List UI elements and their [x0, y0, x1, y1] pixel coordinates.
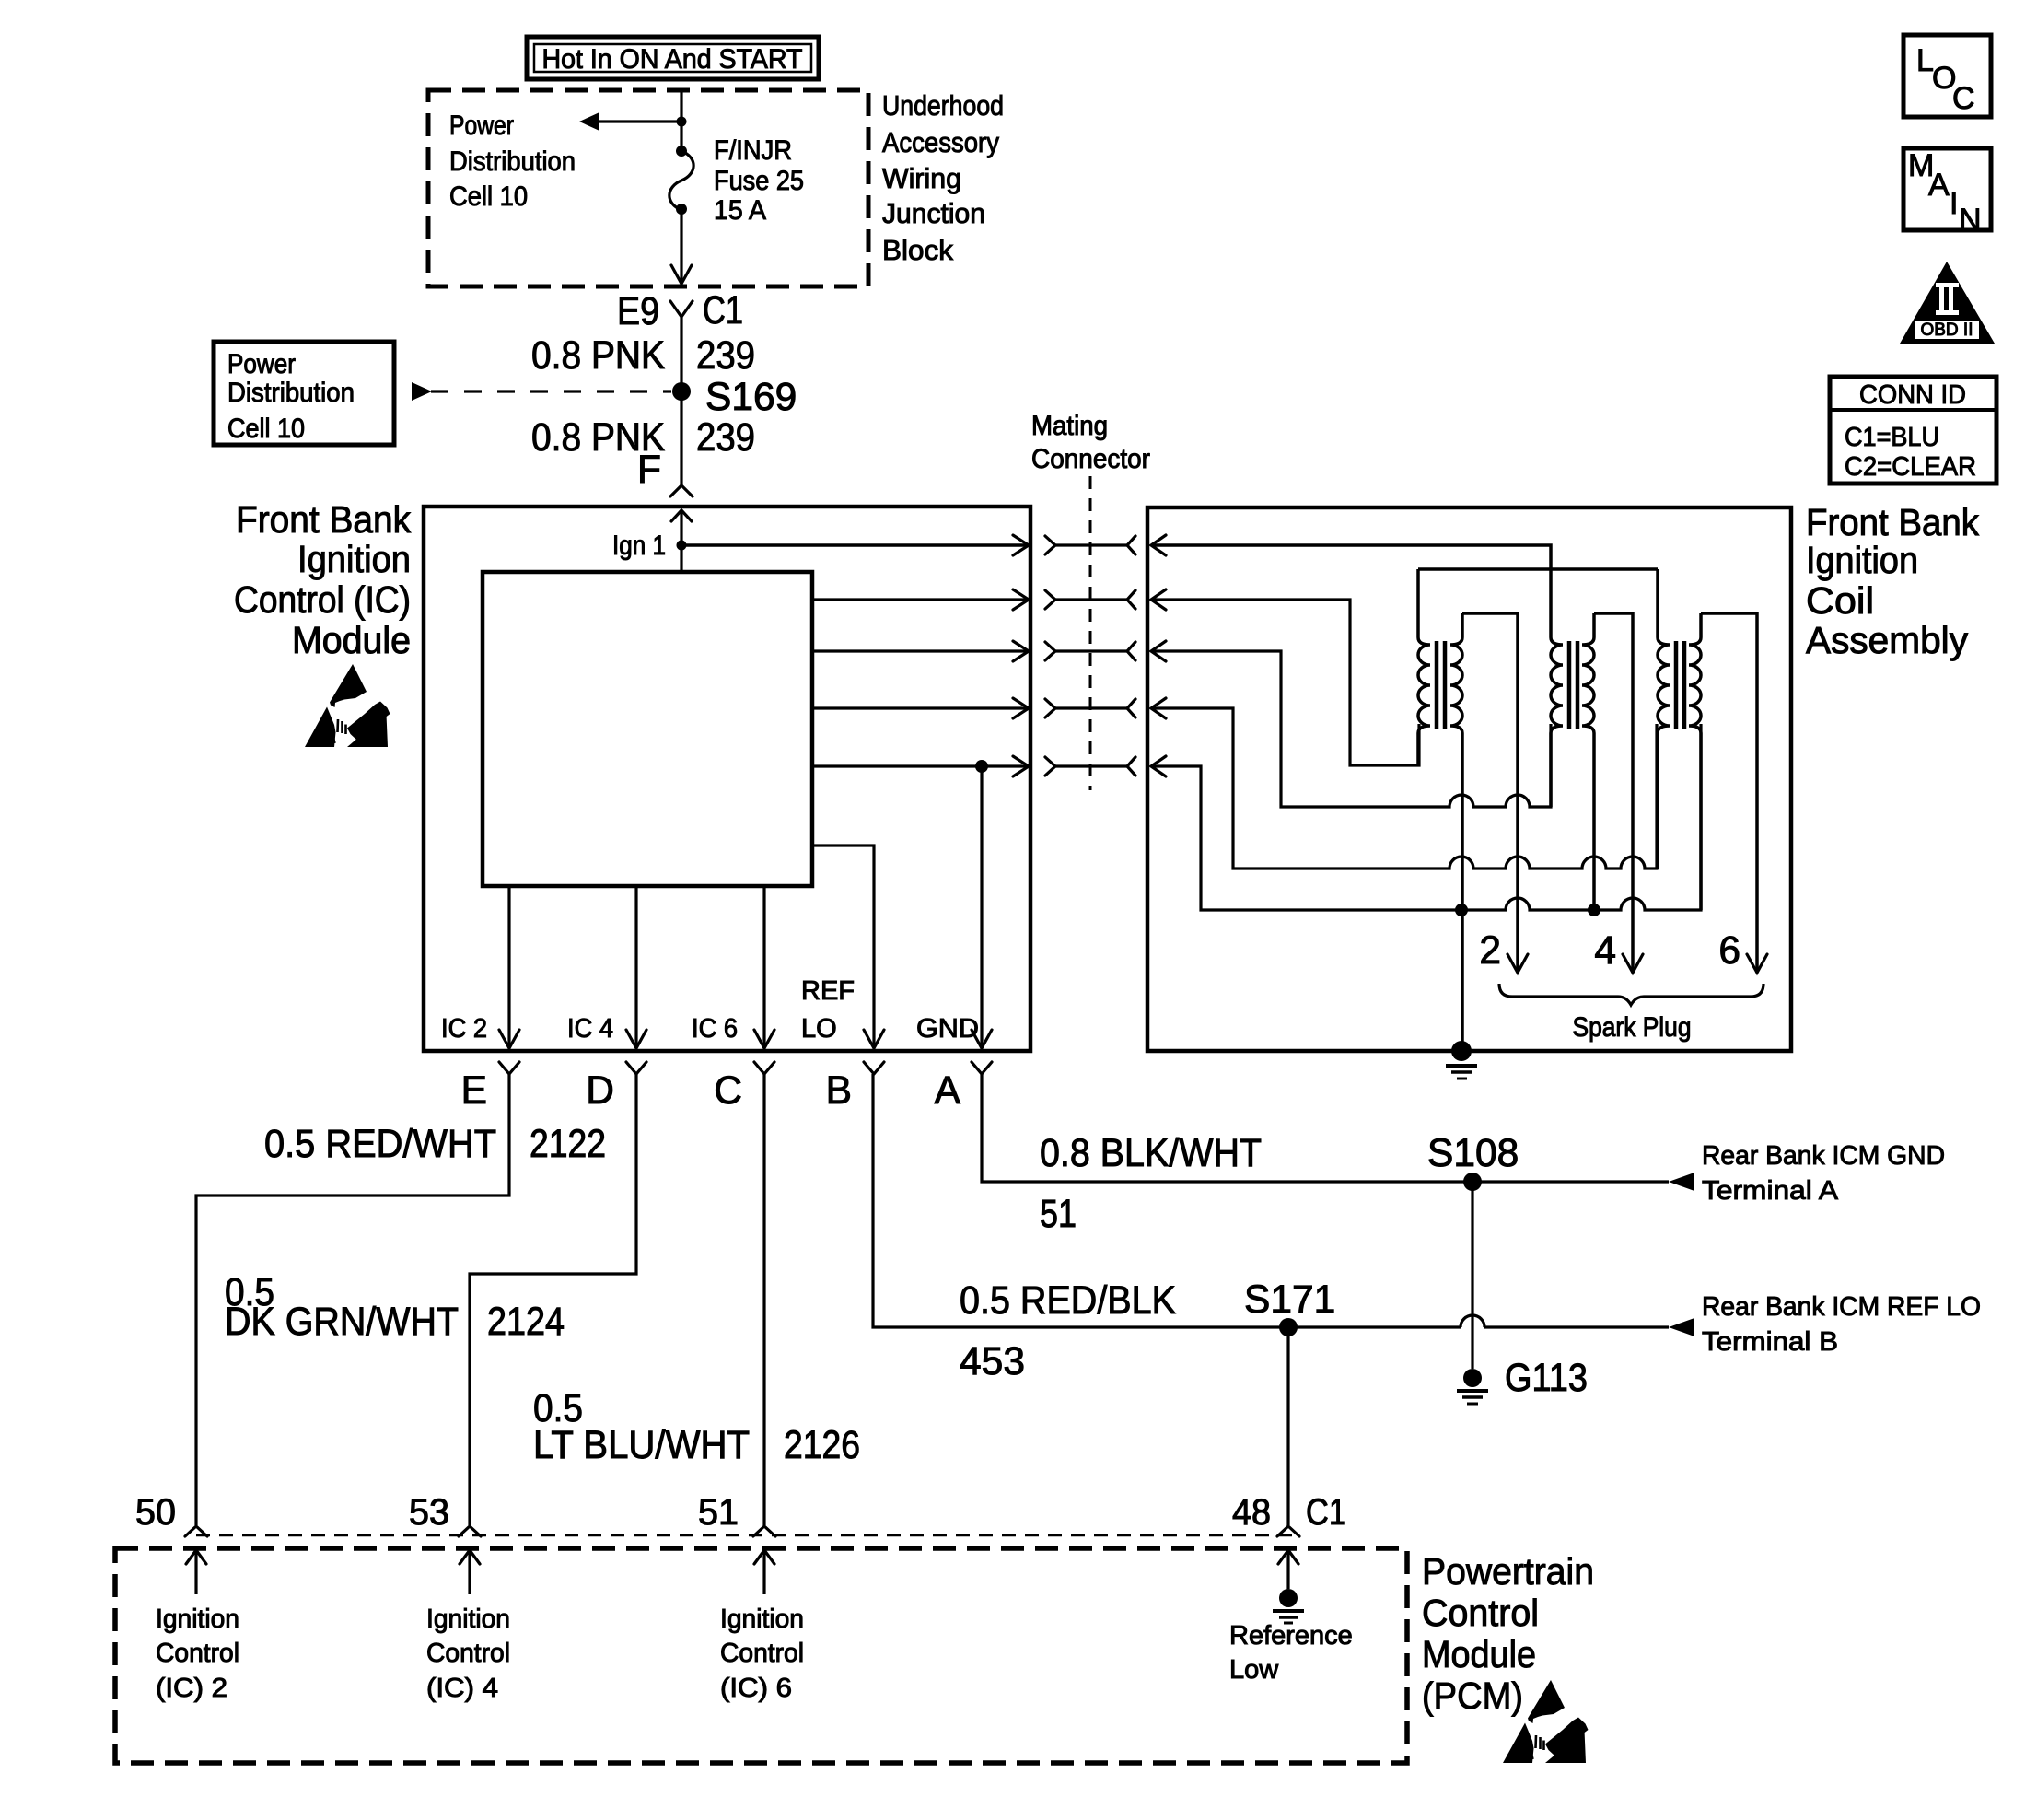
- svg-text:IC 4: IC 4: [567, 1014, 613, 1044]
- svg-text:48: 48: [1232, 1492, 1271, 1533]
- svg-text:51: 51: [1040, 1193, 1077, 1236]
- svg-text:Ignition: Ignition: [156, 1604, 239, 1634]
- svg-text:DK GRN/WHT: DK GRN/WHT: [225, 1301, 459, 1344]
- svg-text:453: 453: [960, 1340, 1025, 1383]
- svg-text:Junction: Junction: [882, 197, 985, 229]
- svg-text:G113: G113: [1505, 1357, 1588, 1400]
- svg-text:239: 239: [696, 334, 755, 378]
- svg-text:S171: S171: [1244, 1278, 1335, 1322]
- svg-text:0.5 RED/BLK: 0.5 RED/BLK: [960, 1279, 1176, 1323]
- svg-text:Hot In ON And START: Hot In ON And START: [542, 44, 803, 75]
- svg-text:(IC) 2: (IC) 2: [156, 1674, 227, 1703]
- svg-text:Powertrain: Powertrain: [1422, 1550, 1594, 1592]
- svg-text:CONN ID: CONN ID: [1859, 380, 1966, 410]
- svg-text:Distribution: Distribution: [449, 146, 576, 177]
- svg-text:IC 2: IC 2: [441, 1014, 487, 1044]
- svg-text:LT BLU/WHT: LT BLU/WHT: [533, 1424, 750, 1467]
- svg-text:Control: Control: [720, 1639, 804, 1668]
- svg-text:2126: 2126: [784, 1424, 860, 1467]
- svg-text:S169: S169: [705, 376, 797, 419]
- svg-text:C1: C1: [703, 289, 743, 332]
- svg-text:I: I: [1950, 186, 1958, 221]
- svg-text:C: C: [1952, 81, 1975, 116]
- svg-text:Coil: Coil: [1806, 579, 1874, 622]
- svg-text:E: E: [461, 1069, 487, 1113]
- svg-text:OBD II: OBD II: [1920, 321, 1973, 340]
- svg-text:0.5 RED/WHT: 0.5 RED/WHT: [264, 1123, 496, 1166]
- svg-text:Module: Module: [1422, 1633, 1536, 1675]
- svg-text:Terminal B: Terminal B: [1702, 1327, 1838, 1357]
- svg-text:Power: Power: [227, 349, 296, 379]
- svg-text:239: 239: [696, 416, 755, 460]
- svg-text:2122: 2122: [530, 1123, 606, 1166]
- svg-text:51: 51: [698, 1492, 739, 1533]
- svg-text:50: 50: [135, 1492, 176, 1533]
- svg-text:C1: C1: [1306, 1492, 1346, 1533]
- svg-text:C: C: [714, 1069, 742, 1113]
- svg-text:0.8 BLK/WHT: 0.8 BLK/WHT: [1040, 1132, 1262, 1175]
- svg-text:A: A: [1928, 168, 1950, 203]
- svg-text:(PCM): (PCM): [1422, 1674, 1523, 1717]
- svg-text:Reference: Reference: [1229, 1621, 1353, 1651]
- svg-text:F/INJR: F/INJR: [714, 135, 792, 166]
- svg-text:Mating: Mating: [1031, 411, 1108, 441]
- svg-text:Accessory: Accessory: [882, 126, 999, 158]
- svg-text:F: F: [637, 449, 661, 492]
- svg-text:Wiring: Wiring: [882, 162, 961, 194]
- svg-text:Assembly: Assembly: [1806, 619, 1968, 661]
- svg-text:Front Bank: Front Bank: [1806, 501, 1979, 543]
- svg-text:Rear Bank ICM REF LO: Rear Bank ICM REF LO: [1702, 1292, 1981, 1322]
- svg-text:Power: Power: [449, 111, 514, 141]
- svg-text:Control: Control: [426, 1639, 510, 1668]
- svg-text:Ignition: Ignition: [297, 538, 411, 580]
- svg-text:(IC) 6: (IC) 6: [720, 1674, 792, 1703]
- svg-text:Control (IC): Control (IC): [234, 578, 411, 621]
- svg-text:Module: Module: [292, 619, 411, 661]
- svg-text:Terminal A: Terminal A: [1702, 1176, 1839, 1206]
- svg-text:Ignition: Ignition: [426, 1604, 510, 1634]
- svg-text:Ignition: Ignition: [720, 1604, 804, 1634]
- svg-text:S108: S108: [1427, 1132, 1519, 1175]
- svg-text:Spark Plug: Spark Plug: [1573, 1012, 1692, 1043]
- svg-text:2: 2: [1479, 929, 1501, 973]
- svg-text:C1=BLU: C1=BLU: [1845, 423, 1939, 452]
- svg-text:A: A: [935, 1069, 961, 1113]
- svg-text:4: 4: [1594, 929, 1616, 973]
- svg-text:15 A: 15 A: [714, 195, 766, 226]
- svg-text:N: N: [1959, 203, 1982, 238]
- svg-text:Ign 1: Ign 1: [612, 531, 666, 561]
- svg-text:REF: REF: [801, 976, 855, 1006]
- svg-text:IC 6: IC 6: [692, 1014, 738, 1044]
- svg-text:Cell 10: Cell 10: [449, 181, 528, 212]
- svg-text:D: D: [586, 1069, 614, 1113]
- svg-text:Ignition: Ignition: [1806, 539, 1918, 581]
- svg-text:Front Bank: Front Bank: [236, 498, 411, 541]
- svg-text:GND: GND: [916, 1014, 979, 1044]
- svg-text:0.8 PNK: 0.8 PNK: [531, 334, 665, 378]
- svg-text:C2=CLEAR: C2=CLEAR: [1845, 452, 1976, 482]
- svg-text:Cell 10: Cell 10: [227, 414, 305, 444]
- svg-text:B: B: [826, 1069, 852, 1113]
- svg-text:(IC) 4: (IC) 4: [426, 1674, 498, 1703]
- svg-text:2124: 2124: [487, 1301, 565, 1344]
- svg-text:53: 53: [409, 1492, 449, 1533]
- svg-text:LO: LO: [801, 1014, 837, 1044]
- svg-text:Distribution: Distribution: [227, 378, 355, 408]
- svg-text:Low: Low: [1229, 1655, 1279, 1685]
- svg-text:6: 6: [1718, 929, 1740, 973]
- svg-text:Underhood: Underhood: [882, 89, 1004, 122]
- svg-text:Fuse 25: Fuse 25: [714, 166, 804, 196]
- svg-text:Control: Control: [156, 1639, 239, 1668]
- svg-text:Block: Block: [882, 234, 953, 266]
- svg-text:Control: Control: [1422, 1592, 1539, 1634]
- svg-text:E9: E9: [617, 290, 659, 333]
- svg-text:Rear Bank ICM GND: Rear Bank ICM GND: [1702, 1141, 1945, 1171]
- svg-text:Connector: Connector: [1031, 444, 1150, 474]
